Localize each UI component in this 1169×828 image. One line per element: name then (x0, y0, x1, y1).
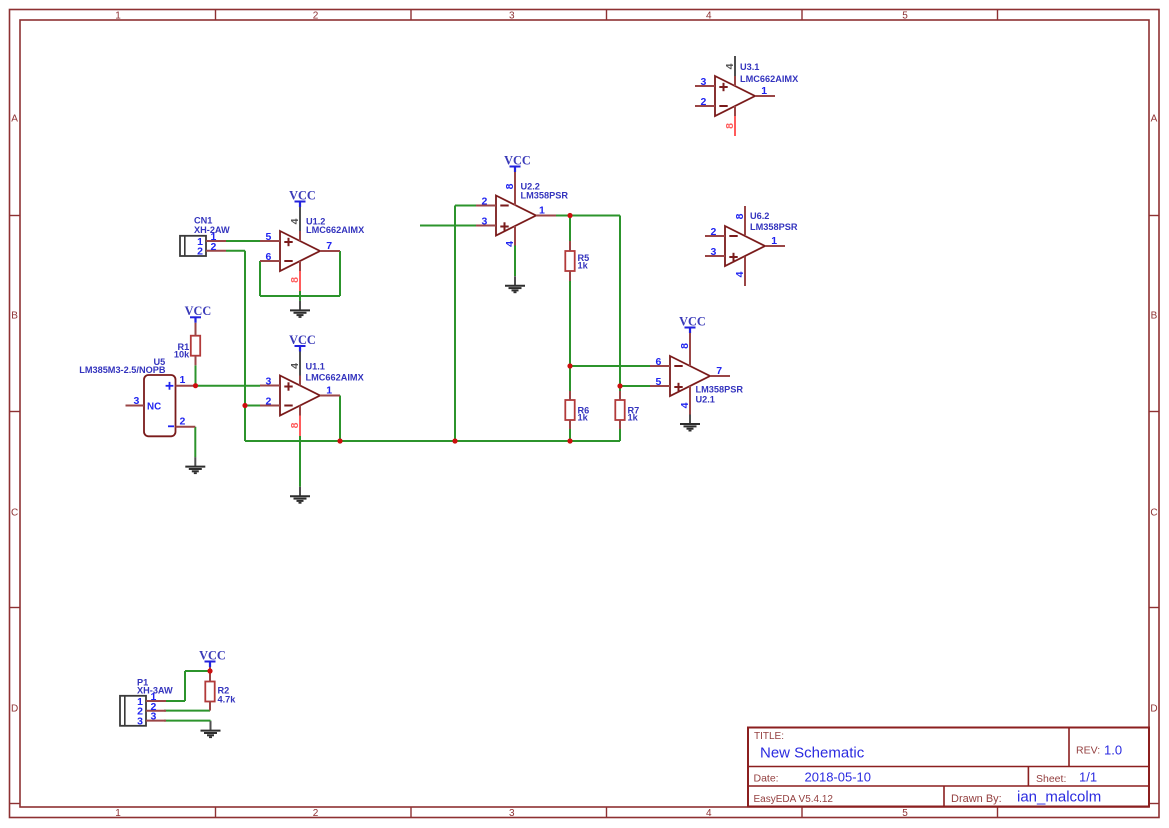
svg-text:NC: NC (147, 402, 161, 413)
svg-text:VCC: VCC (679, 314, 706, 328)
svg-text:B: B (1151, 311, 1158, 322)
svg-text:4: 4 (504, 241, 516, 247)
svg-text:3: 3 (711, 246, 717, 258)
svg-text:2: 2 (211, 241, 217, 253)
svg-text:1: 1 (180, 374, 186, 386)
svg-text:2: 2 (313, 10, 319, 21)
svg-text:8: 8 (289, 277, 301, 283)
svg-text:3: 3 (266, 375, 272, 387)
svg-text:1: 1 (771, 235, 777, 247)
svg-text:8: 8 (679, 343, 691, 349)
svg-text:VCC: VCC (199, 648, 226, 662)
svg-text:2: 2 (266, 395, 272, 407)
svg-text:LM358PSR: LM358PSR (750, 222, 798, 232)
svg-text:VCC: VCC (185, 304, 212, 318)
svg-text:2: 2 (482, 195, 488, 207)
svg-text:3: 3 (134, 395, 140, 407)
svg-text:1: 1 (115, 10, 121, 21)
svg-text:C: C (11, 508, 18, 519)
svg-text:8: 8 (734, 213, 746, 219)
svg-text:LM385M3-2.5/NOPB: LM385M3-2.5/NOPB (79, 365, 166, 375)
svg-text:Drawn By:: Drawn By: (951, 793, 1002, 805)
svg-text:4: 4 (706, 10, 712, 21)
svg-text:2: 2 (711, 226, 717, 238)
svg-text:8: 8 (289, 422, 301, 428)
svg-text:U6.2: U6.2 (750, 211, 769, 221)
svg-text:5: 5 (656, 376, 662, 388)
svg-text:D: D (1150, 704, 1157, 715)
svg-text:3: 3 (509, 10, 515, 21)
svg-text:B: B (11, 311, 18, 322)
svg-text:5: 5 (902, 808, 908, 819)
svg-text:3: 3 (701, 76, 707, 88)
svg-text:2: 2 (313, 808, 319, 819)
svg-text:1: 1 (539, 205, 545, 217)
svg-text:1k: 1k (578, 413, 589, 423)
svg-text:D: D (11, 704, 18, 715)
svg-text:ian_malcolm: ian_malcolm (1017, 789, 1101, 806)
svg-text:LM358PSR: LM358PSR (521, 191, 569, 201)
svg-text:LMC662AIMX: LMC662AIMX (740, 74, 799, 84)
svg-text:4: 4 (679, 402, 691, 408)
svg-text:8: 8 (724, 123, 736, 129)
svg-text:VCC: VCC (289, 188, 316, 202)
svg-text:1/1: 1/1 (1079, 770, 1097, 785)
svg-text:LMC662AIMX: LMC662AIMX (306, 225, 365, 235)
svg-text:1: 1 (761, 85, 767, 97)
svg-text:3: 3 (509, 808, 515, 819)
svg-text:4.7k: 4.7k (218, 695, 237, 705)
svg-text:8: 8 (504, 183, 516, 189)
svg-text:EasyEDA V5.4.12: EasyEDA V5.4.12 (754, 794, 834, 805)
svg-text:LM358PSR: LM358PSR (696, 385, 744, 395)
svg-text:3: 3 (137, 715, 143, 727)
svg-text:6: 6 (656, 356, 662, 368)
svg-text:2: 2 (701, 96, 707, 108)
svg-text:2: 2 (197, 246, 203, 258)
svg-text:REV:: REV: (1076, 745, 1100, 757)
svg-text:U1.1: U1.1 (306, 362, 325, 372)
svg-text:1: 1 (326, 385, 332, 397)
svg-text:7: 7 (716, 365, 722, 377)
svg-text:1.0: 1.0 (1104, 743, 1122, 758)
svg-text:6: 6 (266, 251, 272, 263)
svg-text:C: C (1150, 508, 1157, 519)
svg-text:A: A (11, 114, 18, 125)
svg-text:5: 5 (266, 231, 272, 243)
svg-text:1k: 1k (628, 413, 639, 423)
svg-text:VCC: VCC (504, 153, 531, 167)
svg-text:VCC: VCC (289, 333, 316, 347)
svg-text:Sheet:: Sheet: (1036, 773, 1066, 785)
svg-text:1k: 1k (578, 260, 589, 270)
svg-text:2: 2 (180, 415, 186, 427)
svg-text:2018-05-10: 2018-05-10 (805, 770, 872, 785)
svg-text:3: 3 (482, 215, 488, 227)
svg-text:LMC662AIMX: LMC662AIMX (306, 373, 365, 383)
svg-text:Date:: Date: (754, 773, 779, 785)
svg-text:U3.1: U3.1 (740, 62, 759, 72)
svg-text:5: 5 (902, 10, 908, 21)
svg-text:10k: 10k (174, 350, 190, 360)
svg-text:TITLE:: TITLE: (754, 731, 784, 742)
svg-text:U2.1: U2.1 (696, 395, 715, 405)
svg-text:4: 4 (706, 808, 712, 819)
svg-text:7: 7 (326, 240, 332, 252)
svg-text:1: 1 (115, 808, 121, 819)
svg-text:4: 4 (289, 363, 301, 369)
svg-text:New Schematic: New Schematic (760, 745, 865, 762)
svg-text:A: A (1151, 114, 1158, 125)
svg-text:4: 4 (724, 63, 736, 69)
svg-text:3: 3 (151, 711, 157, 723)
svg-text:4: 4 (289, 218, 301, 224)
svg-text:4: 4 (734, 271, 746, 277)
